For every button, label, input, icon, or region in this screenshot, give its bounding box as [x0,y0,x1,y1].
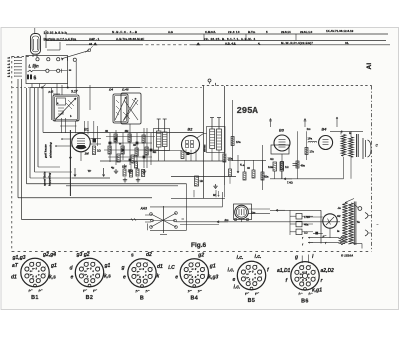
svg-text:AA3: AA3 [140,207,148,211]
svg-text:aT: aT [12,263,19,269]
svg-text:k,s: k,s [104,274,111,280]
svg-text:e: e [175,275,178,281]
svg-text:TP: TP [88,169,92,173]
svg-text:AI: AI [366,63,373,70]
svg-text:golf keuze: golf keuze [44,144,48,159]
svg-text:40a: 40a [301,164,306,168]
svg-text:g: g [294,254,298,260]
svg-text:k,g1: k,g1 [312,287,322,293]
svg-text:a2,D2: a2,D2 [321,268,335,274]
svg-text:i.c.: i.c. [228,268,235,274]
svg-text:1Ω: 1Ω [285,165,289,169]
svg-text:B4: B4 [190,296,198,302]
svg-text:B6: B6 [301,298,309,304]
svg-text:o²: o² [30,269,33,273]
svg-text:o¹: o¹ [32,267,35,271]
svg-text:C.M.6.5.: C.M.6.5. [205,30,216,34]
svg-text:i.c.: i.c. [234,285,241,291]
svg-text:g3 g2: g3 g2 [76,252,90,258]
svg-text:Ia: Ia [337,229,340,233]
svg-text:g1: g1 [209,264,216,270]
svg-text:e: e [71,275,74,281]
svg-text:44: 44 [89,42,93,46]
svg-text:295A: 295A [237,106,259,116]
svg-text:1715: 1715 [304,215,310,219]
svg-text:g1,g3: g1,g3 [12,255,26,261]
svg-text:afstem: afstem [203,145,206,152]
svg-text:40a: 40a [304,223,309,227]
svg-text:I: I [215,83,216,87]
svg-text:4M: 4M [125,129,130,133]
svg-text:B: B [140,296,144,302]
svg-text:29.8.14: 29.8.14 [281,30,291,34]
svg-text:4μ: 4μ [111,166,115,170]
svg-text:29.6 13: 29.6 13 [228,30,240,34]
svg-text:e: e [233,277,236,283]
svg-text:g1: g1 [104,263,111,269]
svg-text:k: k [157,274,160,280]
svg-text:4Ω: 4Ω [270,157,274,161]
svg-text:g2,g4: g2,g4 [42,252,56,258]
svg-text:g: g [121,265,125,271]
svg-text:1m: 1m [307,127,312,131]
svg-text:p.B: p.B [48,90,55,94]
svg-text:spoel links: spoel links [43,171,47,186]
svg-text:o²: o² [189,269,192,273]
svg-text:6: 6 [34,76,37,82]
svg-text:1Ω: 1Ω [304,230,308,234]
svg-text:d1: d1 [11,275,17,281]
svg-text:s: s [131,253,134,259]
svg-text:g2: g2 [197,253,204,259]
svg-text:M..W..R.Pr.4(22.EG)7: M..W..R.Pr.4(22.EG)7 [281,41,313,45]
svg-text:i.c.: i.c. [255,254,262,260]
svg-text:1.0.31.b.8.b.b: 1.0.31.b.8.b.b [44,31,67,35]
svg-text:o¹: o¹ [139,267,142,271]
svg-text:¼ a: ¼ a [240,163,245,167]
svg-text:R 1516A: R 1516A [341,254,354,258]
svg-text:~: ~ [377,223,379,227]
svg-text:1B: 1B [200,179,203,183]
svg-text:B5: B5 [248,298,256,304]
svg-text:L lijn: L lijn [29,63,39,68]
svg-text:e: e [123,275,126,281]
svg-text:k,s: k,s [49,275,56,281]
svg-text:a1,D1: a1,D1 [277,268,291,274]
svg-text:1X.AV.71.38.12.8.19: 1X.AV.71.38.12.8.19 [326,29,354,33]
svg-text:i.c.: i.c. [237,255,244,261]
svg-text:Fig.6: Fig.6 [191,242,207,249]
svg-text:A.B.Tra.38.66.M.9F: A.B.Tra.38.66.M.9F [116,37,144,41]
svg-text:A&P - 1: A&P - 1 [89,37,100,41]
svg-text:Ω.48: Ω.48 [121,88,129,92]
svg-text:o¹: o¹ [191,267,194,271]
svg-text:o²: o² [137,269,140,273]
svg-text:o¹: o¹ [87,267,90,271]
svg-text:o²: o² [246,272,249,276]
svg-text:1Pa: 1Pa [236,140,241,144]
svg-text:2m: 2m [224,218,230,222]
svg-text:29. 48.25. B. 8.1.7.1. A.B.M.: 29. 48.25. B. 8.1.7.1. A.B.M. 4 [204,37,256,41]
svg-text:B2: B2 [86,295,94,301]
svg-text:1M: 1M [85,152,90,156]
svg-text:Ja: Ja [338,206,342,210]
svg-text:d1: d1 [157,264,163,270]
svg-text:afstemming: afstemming [49,142,53,158]
svg-text:g1: g1 [50,263,57,269]
svg-text:B.Tm: B.Tm [248,30,256,34]
svg-text:B1: B1 [31,295,39,301]
svg-text:o¹: o¹ [249,270,252,274]
svg-text:o²: o² [84,269,87,273]
svg-text:Ω4: Ω4 [108,88,113,92]
svg-text:i.C: i.C [168,265,175,271]
svg-text:1Pa: 1Pa [308,137,313,141]
svg-text:S2: S2 [337,214,341,218]
svg-text:40: 40 [105,129,109,133]
svg-text:Ta: Ta [357,220,361,224]
svg-text:k,g3: k,g3 [208,275,218,281]
svg-text:koppeling: koppeling [48,173,52,186]
svg-text:d2: d2 [146,252,152,258]
svg-text:7.4Ω: 7.4Ω [287,181,293,185]
svg-text:17a: 17a [310,150,315,154]
svg-text:N.B.F.C. 4.-B: N.B.F.C. 4.-B [112,30,138,34]
svg-text:A.G: A.G [168,30,173,34]
svg-text:1Ωa: 1Ωa [228,157,234,161]
svg-text:S.17: S.17 [71,90,78,94]
svg-text:29.8.L1.0: 29.8.L1.0 [300,30,313,34]
svg-text:Bertels.m.t.f.o.4.Fra: Bertels.m.t.f.o.4.Fra [44,37,77,41]
